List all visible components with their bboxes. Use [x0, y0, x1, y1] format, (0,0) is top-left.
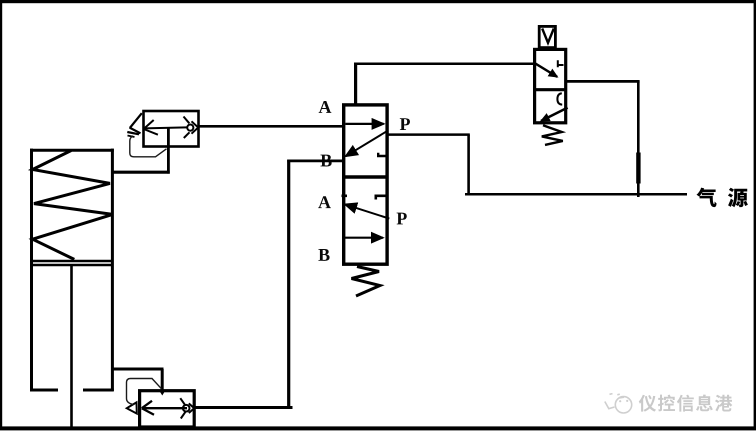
main valve blocked port tick (lower chamber right) — [376, 196, 388, 200]
cylinder return spring — [33, 151, 113, 260]
main valve blocked port tick (top chamber right) — [378, 153, 387, 156]
flow valve 1 check triangle and adjuster dashes — [127, 113, 142, 137]
air source label 气源 — [697, 188, 717, 207]
pilot valve position divider — [533, 88, 567, 91]
pilot solenoid valve actuator box — [539, 26, 555, 47]
pilot valve top chamber flow arrow — [535, 63, 557, 77]
wire: pilot valve outlet to right — [566, 80, 640, 83]
watermark logo — [605, 394, 632, 413]
wire: cylinder head side to flow valve 1 — [112, 171, 170, 174]
wire: drop into flow valve 2 — [161, 369, 164, 392]
flow valve 1 check ball and seat — [184, 117, 199, 139]
port label P (lower) — [397, 213, 407, 225]
wire: drop to air supply line — [637, 81, 640, 197]
pilot valve return spring — [542, 125, 563, 145]
main valve flow arrow A to P (top chamber) — [345, 123, 383, 125]
wire: B line to flow valve 2 — [194, 406, 293, 409]
flow control valve 1 body (one-way throttle, top) — [144, 111, 199, 147]
cylinder barrel — [30, 149, 114, 391]
main valve position divider — [342, 175, 387, 178]
main valve flow arrow P to A diagonal (lower chamber) — [345, 204, 389, 218]
flow control valve 2 body (one-way throttle, bottom) — [140, 391, 195, 427]
pilot valve lower chamber flow arrow — [541, 108, 568, 121]
wire: main valve P port to right — [388, 133, 470, 136]
wire: thickened lower segment — [636, 153, 640, 184]
wire: main valve pilot stub up — [354, 64, 357, 104]
piston (double line) — [30, 260, 113, 262]
wire: cylinder rod side to flow valve 2 — [112, 368, 164, 371]
border frame right — [754, 0, 756, 430]
port label A (lower) — [318, 196, 331, 208]
pilot valve top chamber seat mark — [558, 60, 564, 67]
border frame bottom — [0, 426, 756, 430]
air supply line — [465, 193, 687, 196]
flow valve 2 check triangle — [127, 402, 137, 413]
flow valve 1 throttle passage and left arrow — [144, 120, 187, 135]
flow valve 2 bypass loop — [127, 379, 162, 405]
pilot valve lower chamber seat mark — [557, 93, 562, 104]
piston rod — [70, 266, 73, 427]
wire: riser into flow valve 1 — [167, 127, 170, 173]
main valve flow arrow B (lower chamber) — [342, 237, 383, 239]
wire: main valve B port to left — [287, 160, 342, 163]
main valve blocked port tick (lower chamber left) — [342, 195, 348, 198]
flow valve 2 check ball and seat — [180, 398, 194, 418]
flow valve 2 inlet arrowhead — [159, 390, 166, 396]
port label P (top) — [400, 118, 410, 130]
port label B (middle) — [320, 155, 331, 167]
main valve return spring — [352, 267, 381, 297]
border frame top — [0, 0, 756, 3]
port label B (bottom) — [318, 249, 329, 261]
flow valve 2 throttle passage and left arrow — [142, 401, 187, 415]
wire: flow valve 1 to main valve port A side — [199, 125, 343, 128]
border frame left — [0, 0, 2, 430]
port label A (top) — [319, 101, 332, 113]
flow valve 1 bypass loop — [130, 136, 167, 157]
watermark text 仪控信息港 — [639, 395, 656, 412]
wire: pilot line to solenoid valve — [354, 62, 535, 65]
actuator V mark — [542, 29, 554, 43]
main directional valve body — [344, 105, 387, 264]
wire: B line drop — [287, 160, 290, 409]
wire: P drop to air supply line — [467, 135, 470, 194]
pilot valve body — [535, 49, 566, 122]
main valve flow arrow P to B diagonal (top chamber) — [346, 131, 387, 156]
